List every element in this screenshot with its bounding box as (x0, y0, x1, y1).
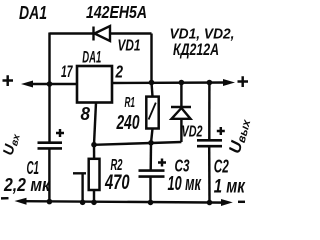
capacitor C1 (38, 143, 63, 149)
wire bottom rail (25, 201, 227, 202)
svg-text:8: 8 (81, 104, 91, 124)
svg-text:DA1: DA1 (82, 47, 101, 66)
resistor R1 (146, 97, 158, 129)
svg-text:VD1: VD1 (118, 38, 141, 55)
wire VD2 top lead (180, 83, 182, 107)
node C3/rail junction (148, 200, 154, 206)
capacitor C2 plus mark (217, 127, 225, 135)
wire top rail left (to VD1 anode) (50, 32, 94, 34)
node output/C2 junction (207, 80, 213, 86)
wire pin 8 vertical (94, 103, 96, 145)
svg-text:17: 17 (61, 62, 73, 81)
node output/VD2 junction (179, 80, 185, 86)
svg-text:C2: C2 (214, 157, 229, 177)
wire C3 bottom lead (149, 177, 151, 203)
wire R1 bottom lead (151, 129, 153, 144)
svg-text:КД212А: КД212А (173, 40, 219, 59)
capacitor C3 plus mark (158, 159, 166, 167)
terminal - bottom right (238, 201, 245, 203)
resistor R2 (89, 159, 100, 190)
capacitor C2 (197, 140, 222, 146)
svg-text:VD2: VD2 (182, 124, 203, 141)
node C1/rail junction (47, 199, 53, 205)
node output/R1 junction (149, 80, 155, 86)
wire left input vertical (48, 33, 50, 143)
terminal + input (3, 75, 14, 86)
chassis ground (T stub) (73, 173, 86, 202)
svg-text:1 мк: 1 мк (214, 175, 246, 197)
wire input rail with arrow (31, 83, 77, 85)
capacitor C3 (139, 171, 165, 177)
IC DA1 box (77, 66, 112, 103)
label Uвых (rotated) (226, 116, 254, 155)
node chassis/rail junction (80, 200, 86, 206)
wire R2 bottom lead (93, 190, 95, 202)
wire C3 top lead (149, 143, 152, 170)
svg-text:10 мк: 10 мк (168, 173, 202, 195)
svg-text:2,2 мк: 2,2 мк (3, 174, 51, 195)
label Uвх (rotated) (1, 131, 23, 157)
wire C1 bottom lead (48, 148, 50, 201)
svg-text:142ЕН5А: 142ЕН5А (86, 2, 147, 22)
node R2/rail junction (91, 200, 97, 206)
diode VD1 (94, 26, 111, 41)
wire VD2 bottom lead (180, 119, 182, 142)
terminal + output (238, 76, 249, 87)
svg-text:2: 2 (115, 62, 123, 82)
wire top rail right (VD1 cathode to corner) (110, 32, 152, 34)
wire VD1 branch vertical (150, 34, 152, 83)
wire C2 top lead (208, 83, 211, 141)
svg-text:240: 240 (116, 112, 140, 134)
wire C2 bottom lead (208, 146, 211, 202)
wire R2 top lead (93, 145, 96, 159)
terminal - bottom left (1, 197, 9, 200)
svg-text:470: 470 (104, 170, 129, 194)
wire output rail (112, 81, 226, 84)
svg-text:DA1: DA1 (19, 3, 47, 23)
node R1/C3 junction (148, 140, 154, 146)
capacitor C1 plus mark (56, 129, 64, 137)
node C2/rail junction (207, 200, 213, 206)
svg-text:R1: R1 (125, 94, 136, 111)
node pin8 junction (91, 142, 97, 148)
node input junction (47, 81, 53, 87)
wire mid node horizontal (94, 142, 181, 145)
wire R1 top lead (152, 83, 153, 97)
diode VD2 (171, 107, 191, 119)
